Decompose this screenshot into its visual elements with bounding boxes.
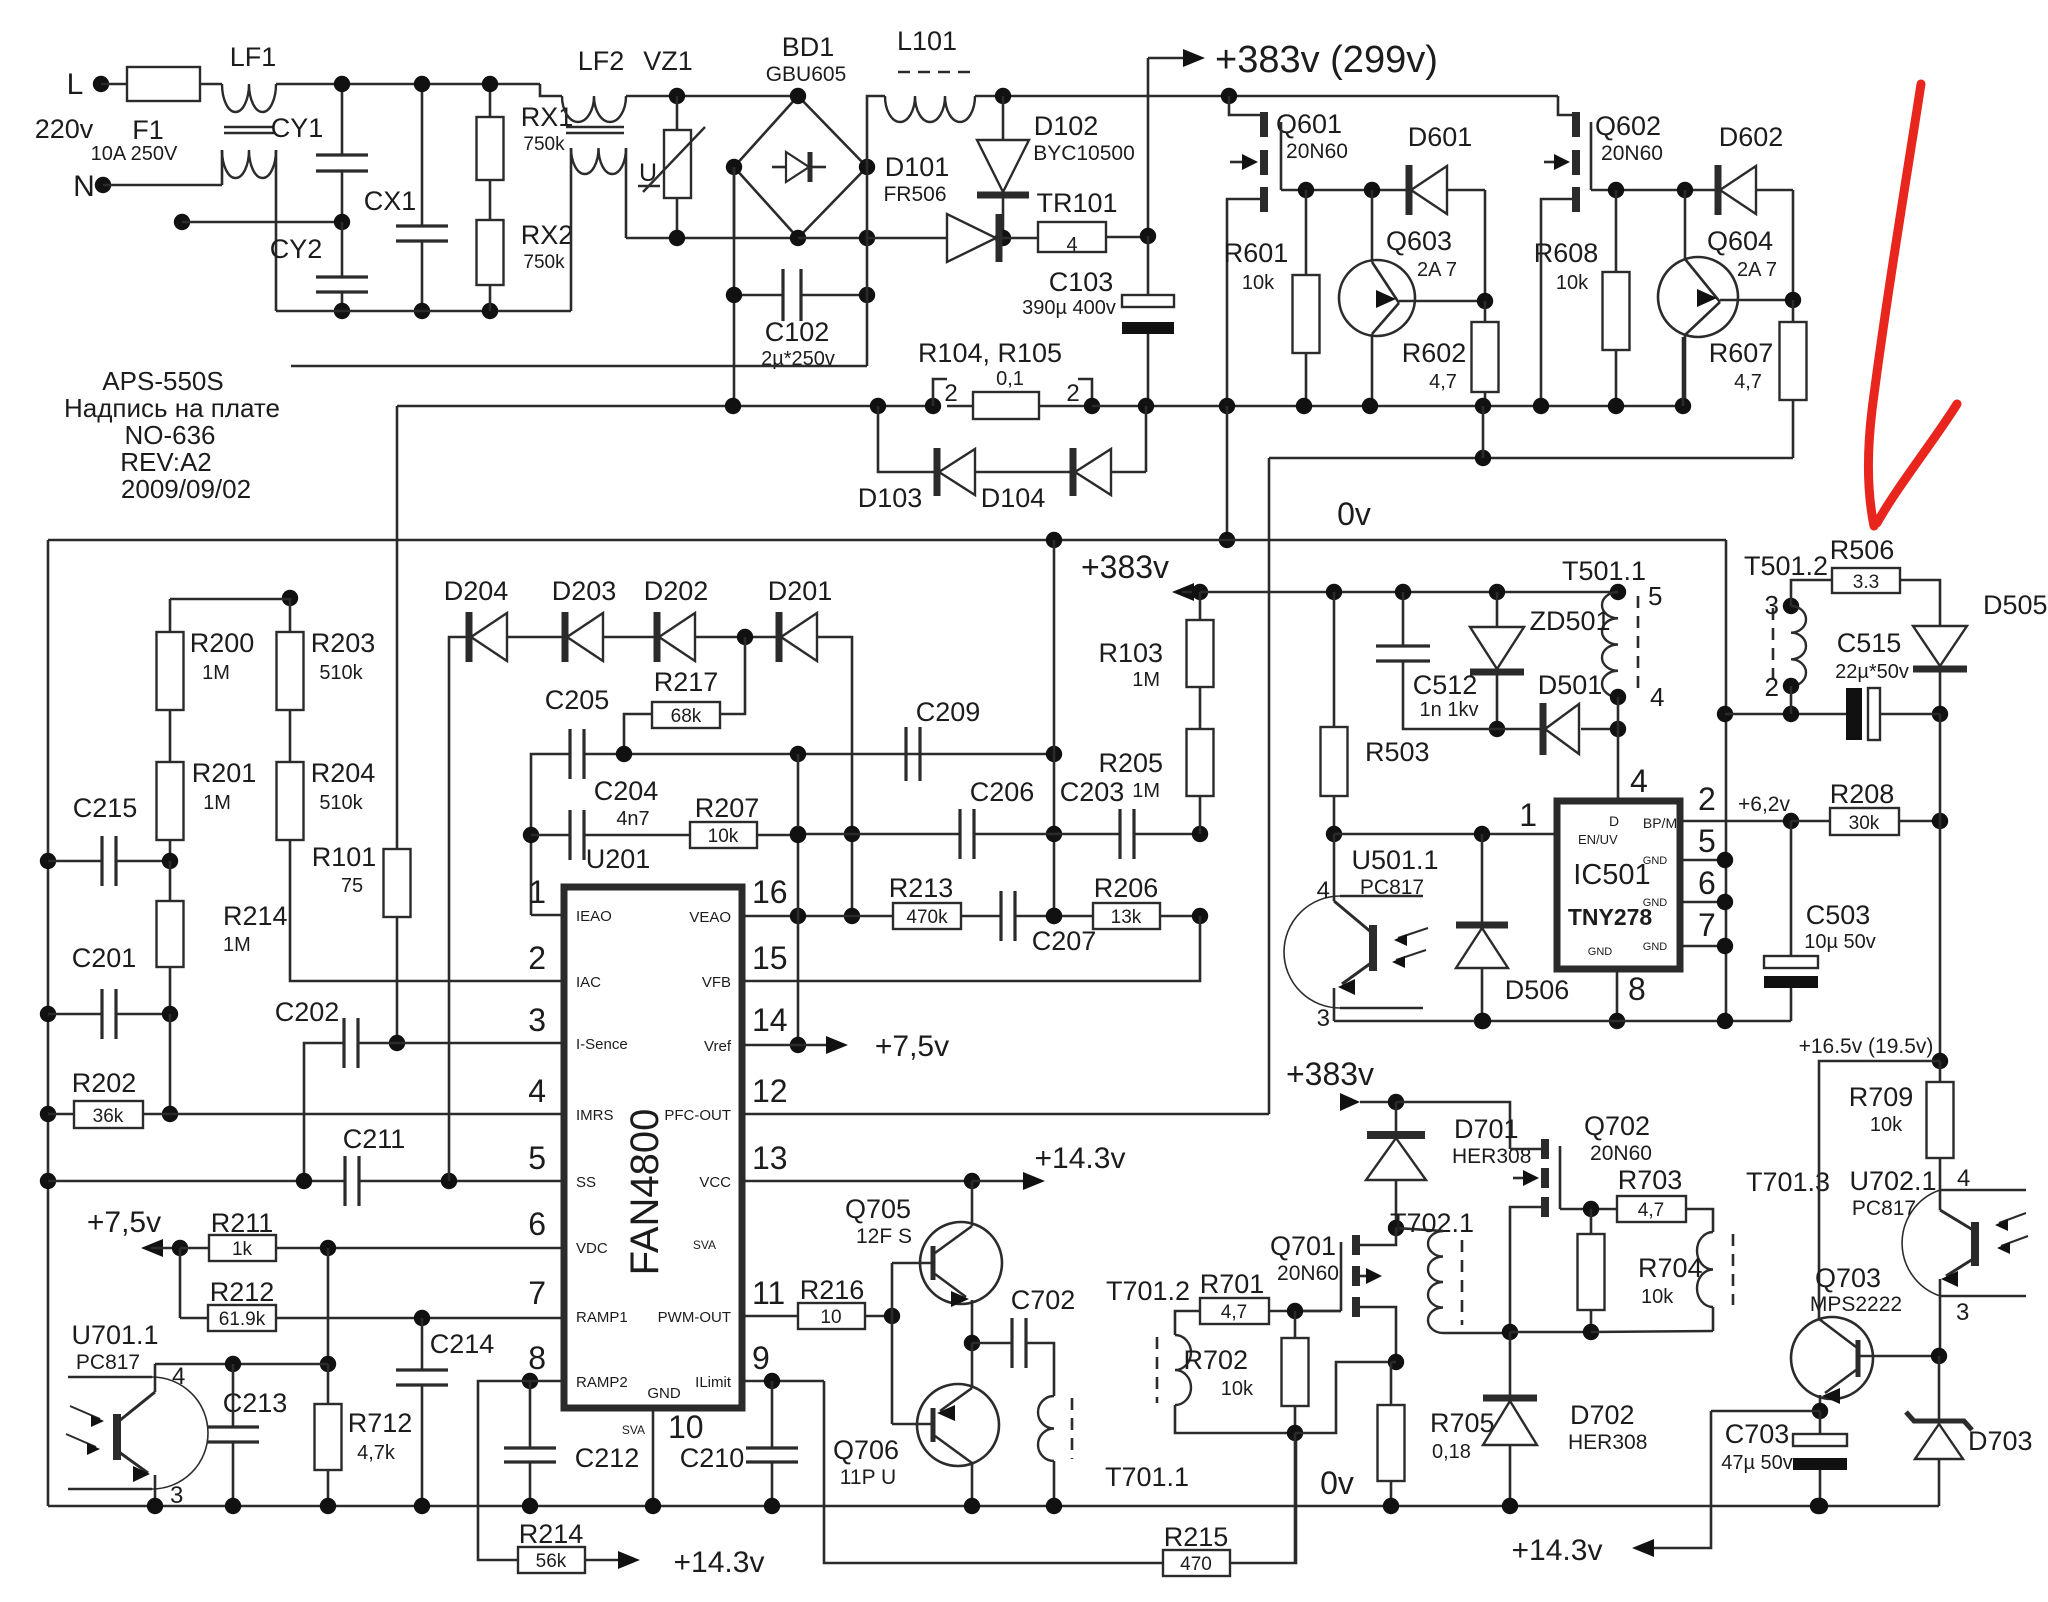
svg-text:C103: C103 xyxy=(1049,267,1114,297)
svg-text:R212: R212 xyxy=(210,1277,275,1307)
wire driver base riser xyxy=(891,1263,894,1424)
svg-text:T702.1: T702.1 xyxy=(1390,1208,1474,1238)
wire +383v row to T501 xyxy=(1200,591,1618,594)
svg-text:470: 470 xyxy=(1180,1554,1212,1575)
svg-text:RAMP2: RAMP2 xyxy=(576,1374,628,1391)
svg-text:4: 4 xyxy=(1630,763,1648,799)
wire 0v top rail xyxy=(48,539,1726,542)
svg-text:10k: 10k xyxy=(708,826,739,847)
svg-text:1M: 1M xyxy=(202,662,230,684)
wire +14.3v output tap xyxy=(1711,1410,1820,1413)
svg-text:3: 3 xyxy=(1765,590,1779,620)
wire ILimit row (pin9) xyxy=(742,1380,824,1383)
svg-text:0v: 0v xyxy=(1337,496,1371,532)
wire Q601 gate row xyxy=(1281,189,1409,192)
svg-text:10: 10 xyxy=(820,1307,841,1328)
svg-text:+6,2v: +6,2v xyxy=(1738,793,1790,816)
svg-text:36k: 36k xyxy=(93,1106,124,1127)
wire top rail to LF2 xyxy=(276,83,540,86)
svg-text:R103: R103 xyxy=(1098,638,1163,668)
svg-text:10k: 10k xyxy=(1870,1114,1903,1136)
svg-text:D: D xyxy=(1609,813,1619,829)
svg-text:2: 2 xyxy=(528,940,546,976)
svg-text:8: 8 xyxy=(528,1340,546,1376)
wire Q702 gate row xyxy=(1560,1208,1617,1211)
svg-text:R214: R214 xyxy=(223,901,288,931)
wire bottom rail right corner xyxy=(1938,1505,1941,1508)
svg-text:EN/UV: EN/UV xyxy=(1578,832,1618,847)
svg-text:16: 16 xyxy=(752,874,788,910)
svg-text:D501: D501 xyxy=(1538,670,1603,700)
svg-text:C102: C102 xyxy=(765,317,830,347)
svg-text:2: 2 xyxy=(1066,380,1079,407)
svg-text:+383v: +383v xyxy=(1286,1056,1374,1092)
wire bridge- / R101 column xyxy=(396,540,399,849)
svg-text:D506: D506 xyxy=(1505,975,1570,1005)
svg-text:56k: 56k xyxy=(536,1551,567,1572)
svg-text:Vref: Vref xyxy=(704,1038,732,1055)
svg-text:+16.5v (19.5v): +16.5v (19.5v) xyxy=(1799,1035,1934,1058)
svg-text:T701.1: T701.1 xyxy=(1105,1462,1189,1492)
light arrows into U701 xyxy=(70,1406,100,1419)
wire Q604 collector to bus end xyxy=(1682,337,1685,406)
wire opto collector row xyxy=(155,1363,328,1366)
svg-text:U201: U201 xyxy=(586,844,651,874)
svg-text:T501.1: T501.1 xyxy=(1562,556,1646,586)
svg-text:7: 7 xyxy=(1698,907,1716,943)
svg-text:+383v (299v): +383v (299v) xyxy=(1215,39,1438,81)
svg-text:U: U xyxy=(639,159,657,187)
wire filter bottom rail xyxy=(276,310,571,313)
wire Vref arrow +7,5v (pin14) xyxy=(742,1044,838,1047)
svg-text:GND: GND xyxy=(1643,855,1668,867)
node dots on bottom rail xyxy=(1810,1498,1826,1514)
wire RAMP2 to R214 xyxy=(522,1373,538,1389)
svg-text:ILimit: ILimit xyxy=(695,1374,732,1391)
svg-text:12: 12 xyxy=(752,1073,788,1109)
wire Q601 source to 0v rail xyxy=(1226,406,1229,540)
svg-text:+14.3v: +14.3v xyxy=(1512,1534,1603,1567)
wire bridge + up to L101 rail xyxy=(867,96,885,167)
svg-text:R703: R703 xyxy=(1618,1165,1683,1195)
svg-text:Q603: Q603 xyxy=(1386,226,1452,256)
svg-text:D602: D602 xyxy=(1719,122,1784,152)
svg-text:10A 250V: 10A 250V xyxy=(91,143,178,165)
svg-text:+7,5v: +7,5v xyxy=(87,1206,161,1239)
svg-text:VZ1: VZ1 xyxy=(643,46,693,76)
svg-text:5: 5 xyxy=(528,1140,546,1176)
svg-text:10µ 50v: 10µ 50v xyxy=(1804,931,1876,953)
svg-text:C215: C215 xyxy=(73,793,138,823)
svg-text:D204: D204 xyxy=(444,576,509,606)
svg-text:510k: 510k xyxy=(319,792,363,814)
svg-text:MPS2222: MPS2222 xyxy=(1810,1293,1902,1316)
svg-text:+14.3v: +14.3v xyxy=(674,1546,765,1579)
svg-text:75: 75 xyxy=(341,875,363,897)
svg-text:C210: C210 xyxy=(680,1443,745,1473)
wire bus right section xyxy=(1092,405,1683,408)
svg-text:TR101: TR101 xyxy=(1036,188,1117,218)
svg-text:3: 3 xyxy=(170,1482,183,1509)
svg-text:IC501: IC501 xyxy=(1573,859,1650,891)
svg-text:IAC: IAC xyxy=(576,974,601,991)
svg-text:22µ*50v: 22µ*50v xyxy=(1835,661,1909,683)
light arrows into U702 xyxy=(1999,1213,2026,1223)
svg-text:Q706: Q706 xyxy=(833,1435,899,1465)
svg-text:R216: R216 xyxy=(800,1275,865,1305)
svg-text:1M: 1M xyxy=(203,792,231,814)
svg-text:R214: R214 xyxy=(519,1519,584,1549)
svg-text:T501.2: T501.2 xyxy=(1744,551,1828,581)
svg-text:REV:A2: REV:A2 xyxy=(120,447,212,477)
svg-text:LF1: LF1 xyxy=(230,42,277,72)
svg-text:4: 4 xyxy=(1066,234,1077,256)
svg-text:4: 4 xyxy=(1650,682,1664,712)
svg-text:1M: 1M xyxy=(223,934,251,956)
svg-text:3: 3 xyxy=(1956,1299,1969,1326)
svg-text:C202: C202 xyxy=(275,997,340,1027)
svg-text:12F S: 12F S xyxy=(856,1225,912,1248)
svg-text:4n7: 4n7 xyxy=(616,808,649,830)
wire standby output column xyxy=(1939,714,1942,821)
svg-text:L101: L101 xyxy=(897,26,957,56)
svg-text:R206: R206 xyxy=(1094,873,1159,903)
svg-text:Q604: Q604 xyxy=(1707,226,1773,256)
svg-text:4: 4 xyxy=(1317,877,1330,904)
svg-text:R203: R203 xyxy=(311,628,376,658)
svg-text:VEAO: VEAO xyxy=(689,909,731,926)
svg-text:D103: D103 xyxy=(858,483,923,513)
svg-text:Q601: Q601 xyxy=(1276,109,1342,139)
IC IC501 TNY278 xyxy=(1557,801,1680,969)
svg-text:C211: C211 xyxy=(343,1124,406,1154)
svg-text:R201: R201 xyxy=(192,758,257,788)
svg-text:C209: C209 xyxy=(916,697,981,727)
svg-text:11: 11 xyxy=(752,1275,785,1311)
svg-text:R217: R217 xyxy=(654,667,719,697)
svg-text:C205: C205 xyxy=(545,685,610,715)
svg-text:D203: D203 xyxy=(552,576,617,606)
wire VEAO row (pin16) xyxy=(742,915,893,918)
svg-text:2A 7: 2A 7 xyxy=(1417,259,1457,281)
red marker arrow xyxy=(1868,84,1921,526)
svg-text:4,7: 4,7 xyxy=(1429,371,1457,393)
svg-text:VDC: VDC xyxy=(576,1240,608,1257)
svg-text:20N60: 20N60 xyxy=(1590,1142,1652,1165)
svg-text:30k: 30k xyxy=(1849,813,1880,834)
svg-text:PWM-OUT: PWM-OUT xyxy=(658,1309,731,1326)
wire +383v arrow tap xyxy=(1148,57,1190,60)
svg-text:R104, R105: R104, R105 xyxy=(918,338,1062,368)
svg-text:R709: R709 xyxy=(1849,1082,1914,1112)
svg-text:+7,5v: +7,5v xyxy=(875,1030,949,1063)
svg-text:N: N xyxy=(73,170,95,203)
svg-text:4: 4 xyxy=(528,1073,546,1109)
svg-text:GND: GND xyxy=(1643,941,1668,953)
wire source row xyxy=(1502,1324,1518,1340)
svg-text:2A 7: 2A 7 xyxy=(1737,259,1777,281)
svg-text:R213: R213 xyxy=(889,873,954,903)
svg-text:13: 13 xyxy=(752,1140,788,1176)
wire C102 loop bottom xyxy=(733,167,736,238)
svg-text:C515: C515 xyxy=(1837,628,1902,658)
svg-text:R602: R602 xyxy=(1402,338,1467,368)
svg-text:FR506: FR506 xyxy=(883,183,946,206)
svg-text:SS: SS xyxy=(576,1174,596,1191)
svg-text:1: 1 xyxy=(1519,797,1537,833)
svg-text:0,18: 0,18 xyxy=(1432,1441,1471,1463)
wire EN/UV row (pin1) xyxy=(1326,826,1342,842)
svg-text:GND: GND xyxy=(1588,946,1613,958)
wire Vref vertical xyxy=(797,754,800,1045)
svg-text:C203: C203 xyxy=(1060,777,1125,807)
svg-text:R608: R608 xyxy=(1534,238,1599,268)
wire VDC to opto collector node xyxy=(327,1248,330,1364)
svg-text:15: 15 xyxy=(752,940,788,976)
svg-text:1M: 1M xyxy=(1132,669,1160,691)
svg-text:4,7: 4,7 xyxy=(1221,1302,1247,1323)
wire bridge - down / C102 left xyxy=(733,167,736,366)
wire SS row xyxy=(40,1173,56,1189)
svg-text:RX2: RX2 xyxy=(521,220,574,250)
svg-text:4: 4 xyxy=(172,1363,185,1390)
svg-text:1M: 1M xyxy=(1132,780,1160,802)
svg-text:D701: D701 xyxy=(1454,1114,1519,1144)
svg-text:F1: F1 xyxy=(132,115,164,145)
svg-text:R202: R202 xyxy=(72,1068,137,1098)
svg-text:11P U: 11P U xyxy=(840,1466,896,1489)
svg-text:PC817: PC817 xyxy=(1852,1197,1916,1220)
svg-text:C201: C201 xyxy=(72,943,137,973)
svg-text:R503: R503 xyxy=(1365,737,1430,767)
wire R702 bottom row xyxy=(1295,1362,1396,1433)
svg-text:20N60: 20N60 xyxy=(1277,1262,1339,1285)
svg-text:R704: R704 xyxy=(1638,1253,1703,1283)
svg-text:APS-550S: APS-550S xyxy=(102,366,223,396)
svg-text:10: 10 xyxy=(668,1409,704,1445)
wire pin9 down to R215 row xyxy=(824,1381,1163,1563)
svg-text:R204: R204 xyxy=(311,758,376,788)
svg-text:8: 8 xyxy=(1628,971,1646,1007)
svg-text:R601: R601 xyxy=(1224,238,1289,268)
svg-text:D703: D703 xyxy=(1968,1426,2033,1456)
svg-text:CY1: CY1 xyxy=(271,113,324,143)
wire Q602 gate row xyxy=(1591,189,1718,192)
wire VCC row (pin13) +14.3v xyxy=(742,1180,972,1183)
svg-text:HER308: HER308 xyxy=(1568,1431,1647,1454)
wire D201 bypass down xyxy=(817,637,852,916)
svg-text:Надпись на плате: Надпись на плате xyxy=(64,393,280,423)
svg-text:470k: 470k xyxy=(906,907,948,928)
svg-text:D202: D202 xyxy=(644,576,709,606)
svg-text:C702: C702 xyxy=(1011,1285,1076,1315)
svg-text:NO-636: NO-636 xyxy=(124,420,215,450)
svg-text:VFB: VFB xyxy=(702,974,731,991)
svg-text:R607: R607 xyxy=(1709,338,1774,368)
svg-text:9: 9 xyxy=(752,1340,770,1376)
svg-text:20N60: 20N60 xyxy=(1601,142,1663,165)
svg-text:SVA: SVA xyxy=(693,1238,716,1252)
wire bridge bottom to D101 row xyxy=(798,237,867,240)
wire IMRS row to pin 4 xyxy=(170,1113,562,1116)
svg-text:R207: R207 xyxy=(695,793,760,823)
svg-text:VCC: VCC xyxy=(699,1174,731,1191)
svg-text:IMRS: IMRS xyxy=(576,1107,614,1124)
wire Q601 drain from rail xyxy=(1221,88,1237,104)
node stub with dot (chassis ref) xyxy=(174,214,190,230)
svg-text:RAMP1: RAMP1 xyxy=(576,1309,628,1326)
svg-text:U702.1: U702.1 xyxy=(1849,1166,1936,1196)
wire R201 to C215 junction xyxy=(169,840,172,861)
svg-text:BYC10500: BYC10500 xyxy=(1033,142,1135,165)
wire LF1 bottom to filter bottom rail xyxy=(275,150,278,311)
svg-text:0,1: 0,1 xyxy=(996,368,1024,390)
light arrows into U501 xyxy=(1398,928,1428,938)
svg-text:10k: 10k xyxy=(1242,272,1275,294)
wire I-Sence row to pin 3 xyxy=(397,1042,562,1045)
svg-text:GND: GND xyxy=(1643,897,1668,909)
svg-text:D104: D104 xyxy=(981,483,1046,513)
svg-text:510k: 510k xyxy=(319,662,363,684)
svg-text:BD1: BD1 xyxy=(782,32,835,62)
svg-text:1n 1kv: 1n 1kv xyxy=(1420,699,1479,721)
svg-text:5: 5 xyxy=(1698,823,1716,859)
svg-text:2009/09/02: 2009/09/02 xyxy=(121,474,251,504)
svg-text:13k: 13k xyxy=(1111,907,1142,928)
svg-text:4: 4 xyxy=(1957,1165,1970,1192)
svg-text:C512: C512 xyxy=(1413,670,1478,700)
svg-text:Q705: Q705 xyxy=(845,1194,911,1224)
svg-text:I-Sence: I-Sence xyxy=(576,1036,628,1053)
svg-text:R208: R208 xyxy=(1830,779,1895,809)
svg-text:R211: R211 xyxy=(211,1208,274,1238)
svg-text:D101: D101 xyxy=(885,152,950,182)
svg-text:PC817: PC817 xyxy=(76,1351,140,1374)
wire R204 to IAC row xyxy=(290,840,562,981)
svg-text:2: 2 xyxy=(1765,672,1779,702)
svg-text:D702: D702 xyxy=(1570,1400,1635,1430)
svg-text:3: 3 xyxy=(1317,1005,1330,1032)
svg-text:CY2: CY2 xyxy=(270,234,323,264)
svg-text:FAN4800: FAN4800 xyxy=(623,1109,667,1276)
svg-text:C214: C214 xyxy=(430,1329,495,1359)
svg-text:+14.3v: +14.3v xyxy=(1035,1142,1126,1175)
svg-text:2: 2 xyxy=(944,380,957,407)
svg-text:ZD501: ZD501 xyxy=(1529,606,1610,636)
svg-text:0v: 0v xyxy=(1320,1465,1354,1501)
svg-text:Q602: Q602 xyxy=(1595,111,1661,141)
svg-text:Q701: Q701 xyxy=(1270,1231,1336,1261)
svg-text:61.9k: 61.9k xyxy=(219,1309,266,1330)
svg-text:TNY278: TNY278 xyxy=(1568,904,1653,930)
wire T702.1 top xyxy=(1396,1228,1443,1231)
svg-text:R712: R712 xyxy=(348,1408,413,1438)
svg-text:390µ 400v: 390µ 400v xyxy=(1022,297,1116,319)
svg-text:IEAO: IEAO xyxy=(576,908,612,925)
svg-text:D201: D201 xyxy=(768,576,833,606)
svg-text:R205: R205 xyxy=(1098,748,1163,778)
svg-text:GBU605: GBU605 xyxy=(766,63,847,86)
svg-text:R101: R101 xyxy=(312,842,377,872)
wire T501.1 pin4 to IC501 drain xyxy=(1617,697,1620,729)
svg-text:D102: D102 xyxy=(1034,111,1099,141)
svg-text:220v: 220v xyxy=(35,114,94,144)
svg-text:R702: R702 xyxy=(1183,1345,1248,1375)
wire bottom 0v rail xyxy=(48,1505,1939,1508)
wire R200 top row xyxy=(282,590,298,606)
svg-text:4,7: 4,7 xyxy=(1638,1200,1664,1221)
svg-text:47µ 50v: 47µ 50v xyxy=(1721,1452,1793,1474)
wire PFC-OUT row (pin12) xyxy=(742,1113,1269,1116)
svg-text:10k: 10k xyxy=(1221,1378,1254,1400)
wire TNY ground rail xyxy=(1334,1020,1791,1023)
svg-text:PFC-OUT: PFC-OUT xyxy=(664,1107,731,1124)
wire shunt return bus xyxy=(396,406,399,540)
svg-text:750k: 750k xyxy=(523,134,565,155)
svg-text:C503: C503 xyxy=(1806,900,1871,930)
svg-text:1: 1 xyxy=(528,874,546,910)
wire top rail LF2 to bridge xyxy=(626,95,798,98)
svg-text:Q702: Q702 xyxy=(1584,1111,1650,1141)
svg-text:68k: 68k xyxy=(671,706,702,727)
svg-text:3.3: 3.3 xyxy=(1853,572,1879,593)
svg-text:T701.3: T701.3 xyxy=(1746,1167,1830,1197)
svg-text:6: 6 xyxy=(528,1206,546,1242)
svg-text:C212: C212 xyxy=(575,1443,640,1473)
svg-text:20N60: 20N60 xyxy=(1286,140,1348,163)
wire left border xyxy=(47,540,50,1506)
svg-text:C207: C207 xyxy=(1032,926,1097,956)
svg-text:GND: GND xyxy=(647,1385,681,1402)
svg-text:C703: C703 xyxy=(1725,1419,1790,1449)
wire right border (TNY ground) xyxy=(1725,540,1728,1021)
svg-text:R705: R705 xyxy=(1430,1408,1495,1438)
svg-text:+383v: +383v xyxy=(1081,549,1169,585)
svg-text:SVA: SVA xyxy=(622,1423,645,1437)
wire AC2 row to bridge bottom xyxy=(626,237,798,240)
svg-text:4,7: 4,7 xyxy=(1734,371,1762,393)
svg-text:750k: 750k xyxy=(523,252,565,273)
wire gate-drive row to PFC-OUT xyxy=(1269,457,1793,460)
svg-text:T701.2: T701.2 xyxy=(1106,1276,1190,1306)
svg-text:U501.1: U501.1 xyxy=(1351,845,1438,875)
svg-text:C204: C204 xyxy=(594,776,659,806)
svg-text:D601: D601 xyxy=(1408,122,1473,152)
svg-text:R506: R506 xyxy=(1830,535,1895,565)
svg-text:R701: R701 xyxy=(1200,1269,1265,1299)
svg-text:10k: 10k xyxy=(1641,1286,1674,1308)
svg-text:1k: 1k xyxy=(232,1239,253,1260)
svg-text:CX1: CX1 xyxy=(364,186,417,216)
svg-text:7: 7 xyxy=(528,1275,546,1311)
wire VFB row (pin15) xyxy=(742,916,1200,981)
svg-text:LF2: LF2 xyxy=(578,46,625,76)
svg-text:5: 5 xyxy=(1648,581,1662,611)
svg-text:6: 6 xyxy=(1698,865,1716,901)
svg-text:C206: C206 xyxy=(970,777,1035,807)
svg-text:Q703: Q703 xyxy=(1815,1263,1881,1293)
svg-text:L: L xyxy=(67,68,84,101)
svg-text:2: 2 xyxy=(1698,781,1716,817)
svg-text:RX1: RX1 xyxy=(521,102,574,132)
svg-text:14: 14 xyxy=(752,1002,788,1038)
svg-text:4,7k: 4,7k xyxy=(357,1442,396,1464)
svg-text:3: 3 xyxy=(528,1002,546,1038)
svg-text:D505: D505 xyxy=(1983,590,2048,620)
svg-text:R200: R200 xyxy=(190,628,255,658)
svg-text:BP/M: BP/M xyxy=(1643,815,1677,831)
wire R214 chain to IMRS row xyxy=(169,1014,172,1114)
